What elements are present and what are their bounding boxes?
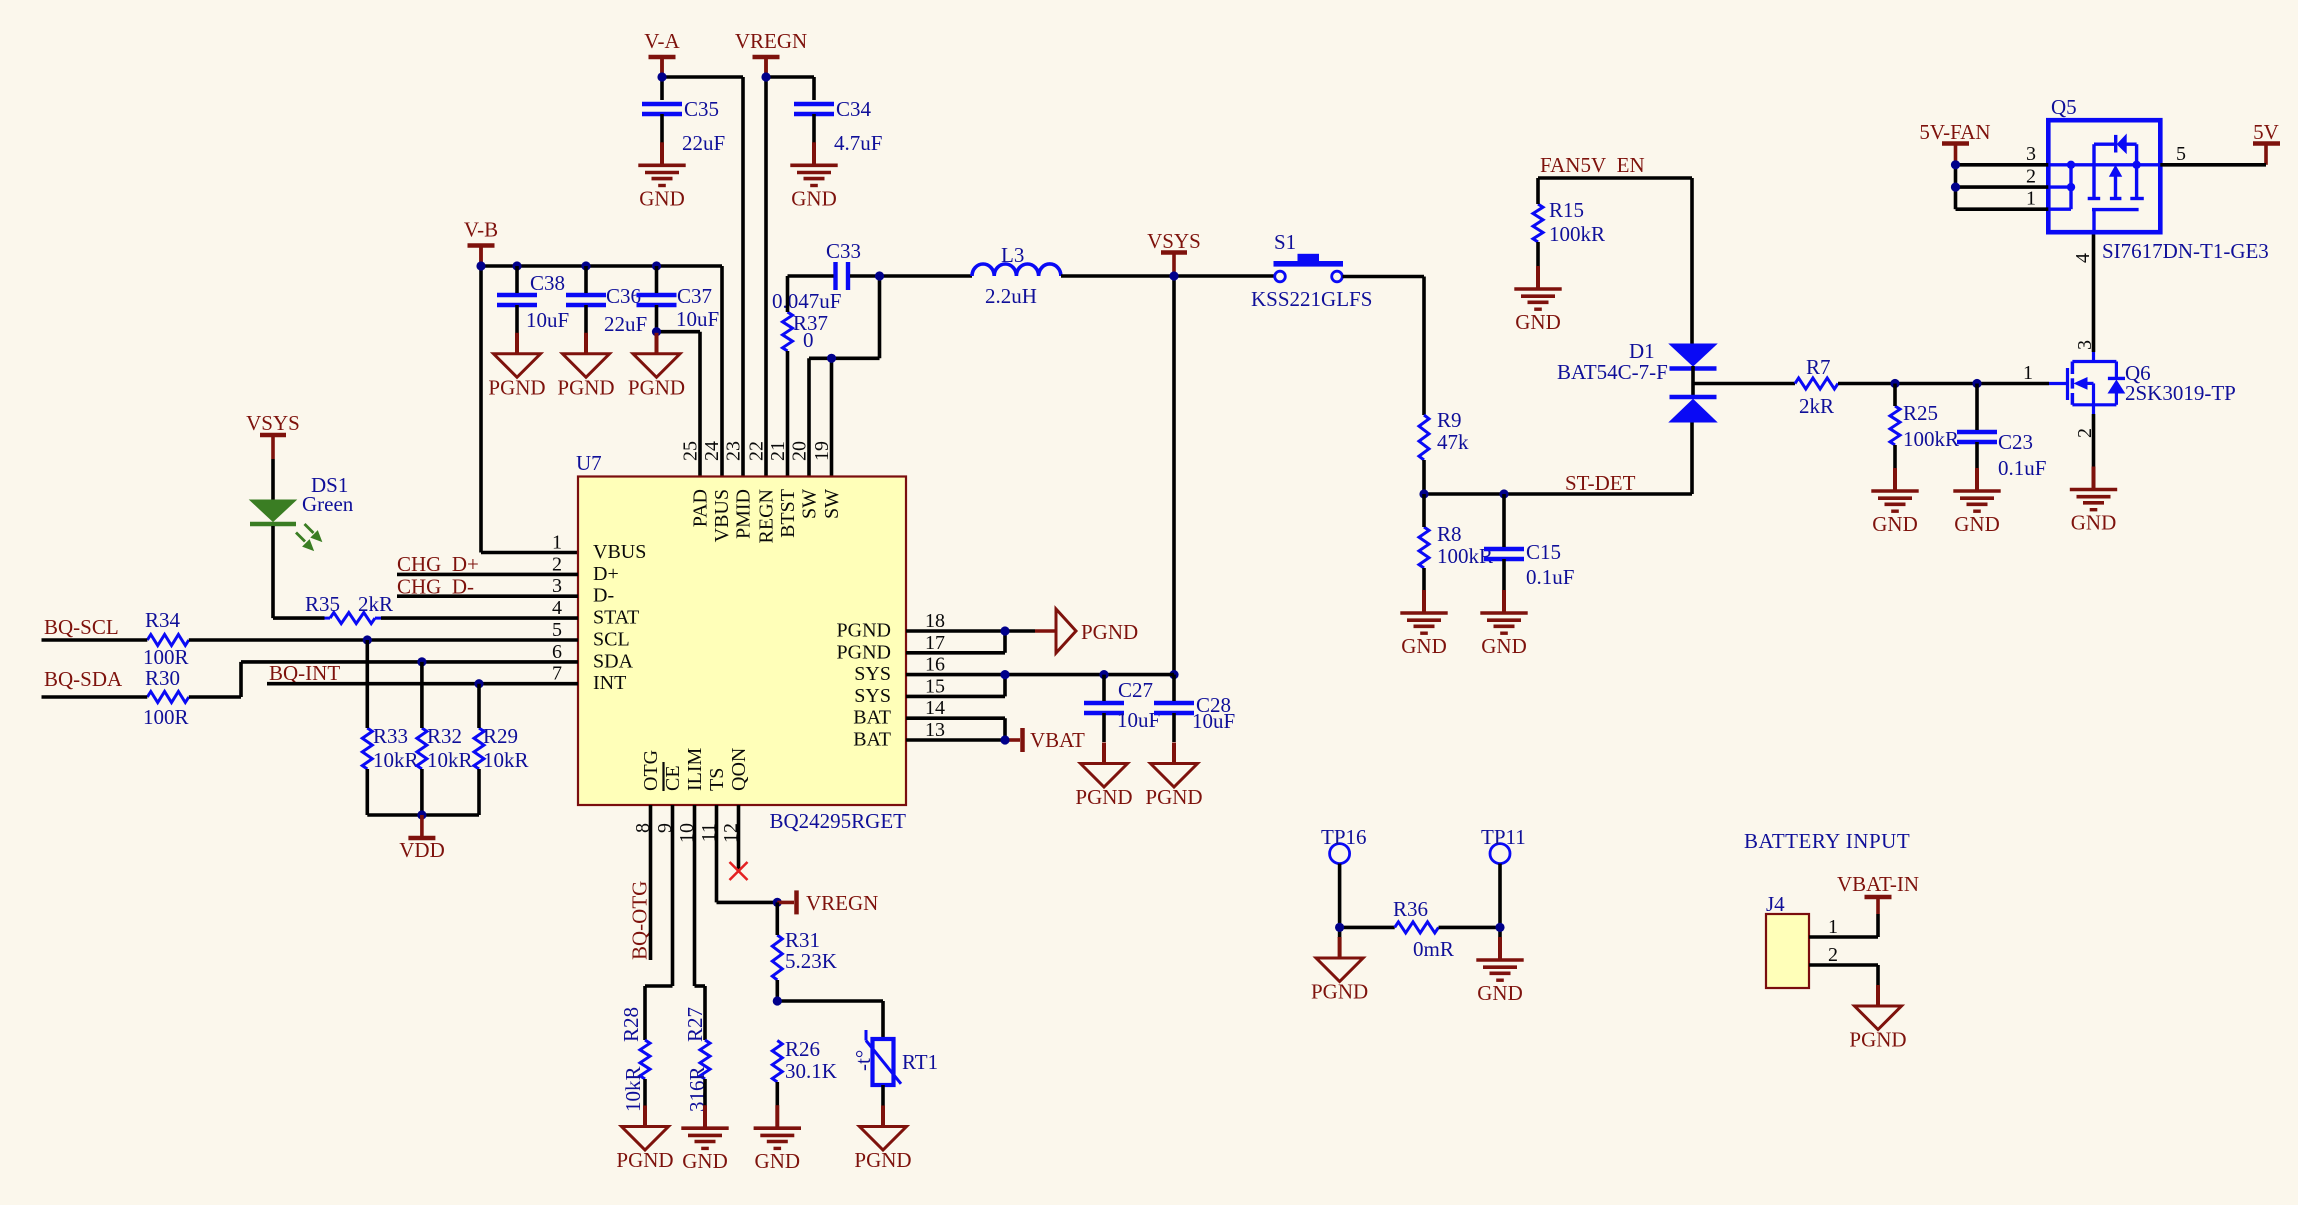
resistor R30 bbox=[143, 666, 189, 729]
net label CHG_D- bbox=[397, 575, 474, 599]
thermistor RT1 bbox=[851, 1030, 938, 1106]
wire net VSYS bbox=[1061, 271, 1275, 679]
svg-text:PGND: PGND bbox=[837, 641, 891, 663]
transistor Q6 bbox=[2049, 340, 2236, 438]
wire net SW bbox=[809, 271, 972, 477]
svg-text:V-A: V-A bbox=[644, 29, 680, 53]
wire net VBAT (pins 13-14) bbox=[906, 718, 1020, 744]
svg-text:D-: D- bbox=[593, 585, 614, 607]
svg-text:VSYS: VSYS bbox=[1147, 229, 1201, 253]
svg-text:R26: R26 bbox=[785, 1037, 820, 1061]
svg-text:30.1K: 30.1K bbox=[785, 1059, 837, 1083]
svg-text:22: 22 bbox=[746, 441, 768, 461]
svg-text:Green: Green bbox=[302, 492, 354, 516]
svg-text:5V: 5V bbox=[2253, 120, 2279, 144]
svg-text:13: 13 bbox=[925, 719, 945, 741]
ground GND (TP11) bbox=[1476, 937, 1523, 1005]
svg-text:PGND: PGND bbox=[1849, 1028, 1906, 1052]
svg-text:25: 25 bbox=[680, 441, 702, 461]
test point TP16 bbox=[1321, 825, 1367, 864]
svg-text:TP16: TP16 bbox=[1321, 825, 1367, 849]
wire net BQ-INT / INT bbox=[267, 679, 578, 688]
wire net BQ-SCL / SCL bbox=[42, 635, 579, 644]
wire C37 bottom to PAD pin 25 bbox=[652, 327, 700, 477]
svg-text:R32: R32 bbox=[427, 724, 462, 748]
svg-text:2kR: 2kR bbox=[358, 592, 393, 616]
svg-text:VSYS: VSYS bbox=[246, 411, 300, 435]
svg-text:BQ-OTG: BQ-OTG bbox=[628, 881, 652, 960]
svg-text:PGND: PGND bbox=[1075, 785, 1132, 809]
wire net V-B / VBUS bbox=[476, 246, 722, 553]
power port VREGN (top) bbox=[735, 29, 807, 77]
svg-text:VBUS: VBUS bbox=[711, 489, 733, 542]
svg-text:R33: R33 bbox=[373, 724, 408, 748]
svg-text:BQ-SDA: BQ-SDA bbox=[44, 667, 123, 691]
svg-text:GND: GND bbox=[1401, 634, 1447, 658]
IC U7 body bbox=[576, 451, 906, 833]
power port VREGN (bottom) bbox=[777, 890, 878, 915]
svg-text:3: 3 bbox=[552, 575, 562, 597]
svg-text:BQ24295RGET: BQ24295RGET bbox=[770, 809, 907, 833]
svg-text:VREGN: VREGN bbox=[806, 891, 878, 915]
svg-text:SDA: SDA bbox=[593, 650, 634, 672]
svg-text:5.23K: 5.23K bbox=[785, 949, 837, 973]
capacitor C37 bbox=[637, 266, 720, 333]
net label FAN5V_EN bbox=[1540, 153, 1645, 177]
svg-text:SYS: SYS bbox=[854, 685, 891, 707]
svg-text:PGND: PGND bbox=[854, 1148, 911, 1172]
ground GND (R27) bbox=[681, 1105, 728, 1173]
svg-text:GND: GND bbox=[682, 1149, 728, 1173]
capacitor C34 bbox=[794, 97, 882, 155]
svg-text:10uF: 10uF bbox=[1117, 708, 1160, 732]
wire R31/R26/RT1 node bbox=[773, 996, 883, 1039]
svg-text:C36: C36 bbox=[606, 284, 641, 308]
net label BQ-OTG (rotated) bbox=[628, 881, 652, 960]
resistor R32 bbox=[417, 662, 473, 815]
svg-text:1: 1 bbox=[2026, 188, 2036, 210]
wire net CHG_D- bbox=[397, 594, 578, 598]
resistor R35 bbox=[305, 592, 393, 624]
svg-text:BATTERY INPUT: BATTERY INPUT bbox=[1744, 829, 1910, 853]
svg-text:TS: TS bbox=[706, 768, 728, 791]
LED DS1 bbox=[250, 459, 354, 550]
svg-text:10uF: 10uF bbox=[676, 307, 719, 331]
svg-text:S1: S1 bbox=[1274, 230, 1296, 254]
wire net SYS bbox=[906, 670, 1174, 696]
svg-text:R15: R15 bbox=[1549, 198, 1584, 222]
svg-text:TP11: TP11 bbox=[1481, 825, 1526, 849]
svg-text:GND: GND bbox=[639, 186, 685, 210]
ground GND (R15) bbox=[1514, 266, 1561, 334]
wire net CHG_D+ bbox=[397, 573, 578, 577]
svg-text:5: 5 bbox=[2176, 143, 2186, 165]
connector J4 bbox=[1766, 892, 1809, 988]
svg-text:6: 6 bbox=[552, 641, 562, 663]
svg-text:SYS: SYS bbox=[854, 663, 891, 685]
wire TS pin 11 bbox=[717, 805, 782, 907]
capacitor C27 bbox=[1084, 675, 1160, 742]
ground GND (R26) bbox=[754, 1105, 801, 1173]
svg-text:VDD: VDD bbox=[399, 838, 445, 862]
power ground PGND (C27) bbox=[1075, 743, 1132, 810]
svg-text:10uF: 10uF bbox=[526, 308, 569, 332]
svg-text:C34: C34 bbox=[836, 97, 872, 121]
svg-text:V-B: V-B bbox=[464, 218, 498, 242]
power ground PGND (C28) bbox=[1145, 743, 1202, 810]
svg-text:C23: C23 bbox=[1998, 430, 2033, 454]
svg-text:BAT: BAT bbox=[853, 729, 891, 751]
svg-text:RT1: RT1 bbox=[902, 1050, 938, 1074]
svg-text:R7: R7 bbox=[1806, 355, 1831, 379]
U7 top pin labels 19-25 bbox=[680, 441, 844, 543]
resistor R26 bbox=[772, 1037, 837, 1106]
resistor R37 bbox=[783, 276, 829, 477]
svg-text:INT: INT bbox=[593, 672, 626, 694]
wire net BQ-SDA / SDA bbox=[42, 657, 579, 697]
svg-text:VBUS: VBUS bbox=[593, 541, 646, 563]
svg-text:R27: R27 bbox=[683, 1007, 707, 1042]
svg-text:10kR: 10kR bbox=[373, 748, 419, 772]
svg-text:SW: SW bbox=[821, 489, 843, 519]
svg-text:QON: QON bbox=[728, 748, 750, 791]
svg-text:R35: R35 bbox=[305, 592, 340, 616]
svg-text:20: 20 bbox=[789, 441, 811, 461]
resistor R28 bbox=[619, 1007, 650, 1112]
wire TP16 to R36 bbox=[1335, 864, 1395, 938]
U7 left pin labels 1-7 bbox=[552, 532, 646, 695]
svg-text:19: 19 bbox=[811, 441, 833, 461]
ground GND (Q6) bbox=[2070, 467, 2117, 535]
wire D1 to R7 bbox=[1693, 382, 1795, 386]
svg-text:7: 7 bbox=[552, 663, 562, 685]
resistor R7 bbox=[1795, 355, 1838, 418]
power port 5V bbox=[2253, 120, 2280, 165]
svg-text:3: 3 bbox=[2026, 143, 2036, 165]
inductor L3 bbox=[972, 243, 1061, 308]
svg-text:5V-FAN: 5V-FAN bbox=[1919, 120, 1990, 144]
capacitor C35 bbox=[642, 97, 725, 155]
ground GND (R25) bbox=[1871, 468, 1918, 536]
power port VSYS (left) bbox=[246, 411, 300, 459]
svg-text:KSS221GLFS: KSS221GLFS bbox=[1251, 287, 1372, 311]
svg-text:SW: SW bbox=[799, 489, 821, 519]
transistor Q5 bbox=[2026, 95, 2269, 263]
power port V-B bbox=[464, 218, 498, 265]
svg-text:PMID: PMID bbox=[733, 489, 755, 539]
svg-text:R25: R25 bbox=[1903, 401, 1938, 425]
svg-text:100kR: 100kR bbox=[1549, 222, 1605, 246]
svg-text:C38: C38 bbox=[530, 271, 565, 295]
svg-text:C27: C27 bbox=[1118, 678, 1153, 702]
svg-text:2.2uH: 2.2uH bbox=[985, 284, 1037, 308]
svg-text:GND: GND bbox=[791, 186, 837, 210]
ground GND (C23) bbox=[1953, 468, 2000, 536]
svg-text:17: 17 bbox=[925, 632, 945, 654]
svg-text:PGND: PGND bbox=[1145, 785, 1202, 809]
wire Q6 source to GND bbox=[2092, 414, 2096, 467]
svg-text:0mR: 0mR bbox=[1413, 937, 1454, 961]
resistor R15 bbox=[1533, 178, 1605, 266]
svg-text:OTG: OTG bbox=[640, 750, 662, 791]
svg-text:BQ-INT: BQ-INT bbox=[269, 661, 340, 685]
svg-text:15: 15 bbox=[925, 675, 945, 697]
switch S1 bbox=[1251, 230, 1372, 311]
svg-text:GND: GND bbox=[1954, 512, 2000, 536]
svg-text:R28: R28 bbox=[619, 1007, 643, 1042]
power port VBAT bbox=[1023, 728, 1086, 752]
capacitor C38 bbox=[497, 266, 569, 333]
power port VDD bbox=[399, 815, 445, 862]
resistor R27 bbox=[683, 1007, 710, 1112]
svg-text:4: 4 bbox=[552, 597, 562, 619]
power ground PGND (R28) bbox=[616, 1106, 673, 1173]
svg-text:10kR: 10kR bbox=[621, 1066, 645, 1112]
svg-text:2: 2 bbox=[552, 553, 562, 575]
resistor R34 bbox=[143, 608, 189, 669]
resistor R9 bbox=[1419, 408, 1469, 494]
svg-text:PGND: PGND bbox=[1081, 620, 1138, 644]
svg-text:PGND: PGND bbox=[616, 1148, 673, 1172]
svg-text:U7: U7 bbox=[576, 451, 602, 475]
wire R7 to Q6 gate bbox=[1838, 362, 2049, 388]
capacitor C23 bbox=[1957, 384, 2046, 481]
svg-text:-t°: -t° bbox=[851, 1050, 875, 1071]
svg-text:PGND: PGND bbox=[837, 620, 891, 642]
svg-text:GND: GND bbox=[1515, 310, 1561, 334]
power ground PGND (J4) bbox=[1849, 985, 1906, 1052]
title BATTERY INPUT bbox=[1744, 829, 1910, 853]
svg-text:0.047uF: 0.047uF bbox=[772, 289, 841, 313]
svg-text:SCL: SCL bbox=[593, 629, 630, 651]
power port 5V-FAN bbox=[1919, 120, 1990, 165]
svg-text:BAT: BAT bbox=[853, 707, 891, 729]
svg-text:23: 23 bbox=[723, 441, 745, 461]
wire net VREGN top bbox=[761, 57, 814, 477]
svg-text:18: 18 bbox=[925, 610, 945, 632]
svg-text:4: 4 bbox=[2072, 253, 2094, 263]
svg-text:PAD: PAD bbox=[690, 489, 712, 527]
svg-text:CHG D+: CHG D+ bbox=[397, 552, 479, 576]
wire R36 to TP11 bbox=[1439, 864, 1505, 939]
wire Q5 pin5 to 5V bbox=[2160, 163, 2266, 167]
resistor R36 bbox=[1393, 897, 1454, 961]
wire Q5 pin4 to Q6 drain bbox=[2092, 232, 2096, 352]
power ground PGND (TP16) bbox=[1311, 937, 1368, 1004]
wire DS1 to R35 (STAT) bbox=[273, 526, 325, 618]
svg-text:22uF: 22uF bbox=[682, 131, 725, 155]
svg-text:D+: D+ bbox=[593, 563, 619, 585]
wire S1 to R9 bbox=[1343, 277, 1425, 416]
svg-text:1: 1 bbox=[2023, 362, 2033, 384]
capacitor C33 bbox=[772, 239, 880, 313]
power port V-A bbox=[644, 29, 680, 76]
power ground PGND (C38) bbox=[488, 333, 545, 400]
svg-text:R9: R9 bbox=[1437, 408, 1462, 432]
net label CHG_D+ bbox=[397, 552, 479, 576]
wire OTG pin 8 bbox=[649, 805, 653, 960]
svg-text:GND: GND bbox=[1477, 981, 1523, 1005]
svg-text:0.1uF: 0.1uF bbox=[1526, 565, 1574, 589]
power ground PGND (RT1) bbox=[854, 1106, 911, 1173]
wire QON pin 12 (no connect) bbox=[737, 805, 741, 871]
wire CE pin 9 to R28 bbox=[645, 805, 673, 1040]
svg-text:FAN5V EN: FAN5V EN bbox=[1540, 153, 1645, 177]
svg-text:1: 1 bbox=[552, 532, 562, 554]
svg-text:1: 1 bbox=[1828, 916, 1838, 938]
svg-text:C35: C35 bbox=[684, 97, 719, 121]
svg-text:2: 2 bbox=[1828, 944, 1838, 966]
svg-text:PGND: PGND bbox=[628, 375, 685, 399]
svg-text:R30: R30 bbox=[145, 666, 180, 690]
svg-text:C33: C33 bbox=[826, 239, 861, 263]
svg-text:ILIM: ILIM bbox=[684, 747, 706, 791]
svg-text:REGN: REGN bbox=[756, 489, 778, 543]
diode D1 (dual BAT54C) bbox=[1557, 339, 1717, 422]
power port VBAT-IN bbox=[1837, 872, 1919, 914]
svg-text:4.7uF: 4.7uF bbox=[834, 131, 882, 155]
svg-text:100R: 100R bbox=[143, 705, 189, 729]
svg-text:10kR: 10kR bbox=[483, 748, 529, 772]
net label BQ-INT bbox=[269, 661, 340, 685]
resistor R33 bbox=[362, 640, 418, 815]
svg-text:47k: 47k bbox=[1437, 430, 1469, 454]
svg-text:GND: GND bbox=[2071, 511, 2117, 535]
wire VDD rail bbox=[367, 810, 479, 819]
wire net V-A / PMID bbox=[657, 57, 743, 477]
power port VSYS (mid) bbox=[1147, 229, 1201, 276]
power ground PGND arrow (pin 18) bbox=[1056, 609, 1138, 653]
svg-text:BQ-SCL: BQ-SCL bbox=[44, 615, 119, 639]
power ground PGND (C36) bbox=[557, 333, 614, 400]
svg-text:PGND: PGND bbox=[488, 375, 545, 399]
capacitor C15 bbox=[1484, 494, 1574, 590]
net label BQ-SCL bbox=[44, 615, 119, 639]
wire net FAN5V_EN bbox=[1538, 178, 1692, 344]
svg-text:PGND: PGND bbox=[557, 375, 614, 399]
capacitor C36 bbox=[566, 266, 647, 336]
net label BQ-SDA bbox=[44, 667, 123, 691]
U7 bottom pin labels 8-12 bbox=[632, 747, 750, 843]
svg-text:21: 21 bbox=[767, 441, 789, 461]
svg-text:C37: C37 bbox=[677, 284, 712, 308]
svg-text:GND: GND bbox=[1481, 634, 1527, 658]
svg-text:14: 14 bbox=[925, 697, 945, 719]
svg-text:VBAT-IN: VBAT-IN bbox=[1837, 872, 1919, 896]
svg-text:R8: R8 bbox=[1437, 522, 1462, 546]
svg-text:VREGN: VREGN bbox=[735, 29, 807, 53]
svg-text:SI7617DN-T1-GE3: SI7617DN-T1-GE3 bbox=[2102, 239, 2269, 263]
resistor R29 bbox=[474, 684, 529, 815]
svg-text:2kR: 2kR bbox=[1799, 394, 1834, 418]
svg-text:R36: R36 bbox=[1393, 897, 1428, 921]
wire U7 pins 17-18 to PGND bbox=[906, 626, 1056, 652]
svg-text:R34: R34 bbox=[145, 608, 181, 632]
svg-text:Q5: Q5 bbox=[2051, 95, 2077, 119]
wire R35 to STAT pin 4 bbox=[381, 616, 578, 620]
svg-text:2SK3019-TP: 2SK3019-TP bbox=[2125, 381, 2236, 405]
svg-text:10uF: 10uF bbox=[1192, 709, 1235, 733]
svg-text:C15: C15 bbox=[1526, 540, 1561, 564]
svg-text:22uF: 22uF bbox=[604, 312, 647, 336]
svg-text:GND: GND bbox=[755, 1149, 801, 1173]
svg-text:PGND: PGND bbox=[1311, 980, 1368, 1004]
svg-text:STAT: STAT bbox=[593, 607, 639, 629]
power ground PGND (C37) bbox=[628, 333, 685, 400]
svg-text:L3: L3 bbox=[1001, 243, 1024, 267]
test point TP11 bbox=[1481, 825, 1526, 864]
svg-text:GND: GND bbox=[1872, 512, 1918, 536]
ground GND (C35) bbox=[638, 142, 685, 210]
svg-text:VBAT: VBAT bbox=[1030, 728, 1085, 752]
ground GND (C15) bbox=[1480, 590, 1527, 658]
wire J4 pin 2 to PGND bbox=[1809, 944, 1878, 1006]
wire J4 pin 1 to VBAT-IN bbox=[1809, 914, 1878, 938]
svg-text:24: 24 bbox=[701, 441, 723, 461]
svg-text:R29: R29 bbox=[483, 724, 518, 748]
svg-text:10kR: 10kR bbox=[427, 748, 473, 772]
svg-text:BAT54C-7-F: BAT54C-7-F bbox=[1557, 360, 1668, 384]
svg-text:0.1uF: 0.1uF bbox=[1998, 456, 2046, 480]
ground GND (R8) bbox=[1400, 590, 1447, 658]
svg-text:100kR: 100kR bbox=[1903, 427, 1959, 451]
wire ILIM pin 10 to R27 bbox=[695, 805, 706, 1040]
ground GND (C34) bbox=[790, 142, 837, 210]
svg-text:16: 16 bbox=[925, 654, 945, 676]
svg-text:CE: CE bbox=[662, 765, 684, 791]
svg-text:2: 2 bbox=[2026, 166, 2036, 188]
capacitor C28 bbox=[1154, 675, 1235, 742]
resistor R25 bbox=[1890, 384, 1959, 469]
no-connect X on pin 12 bbox=[730, 862, 748, 880]
resistor R8 bbox=[1419, 494, 1493, 590]
svg-text:5: 5 bbox=[552, 619, 562, 641]
svg-text:J4: J4 bbox=[1766, 892, 1785, 916]
U7 right pin labels 13-18 bbox=[837, 610, 945, 751]
resistor R31 bbox=[772, 902, 837, 1001]
svg-text:ST-DET: ST-DET bbox=[1565, 471, 1636, 495]
wire net ST-DET bbox=[1419, 422, 1692, 499]
svg-text:0: 0 bbox=[803, 328, 814, 352]
wire net 5V-FAN to Q5 pins 1-3 bbox=[1951, 160, 2048, 209]
svg-text:BTST: BTST bbox=[777, 489, 799, 538]
